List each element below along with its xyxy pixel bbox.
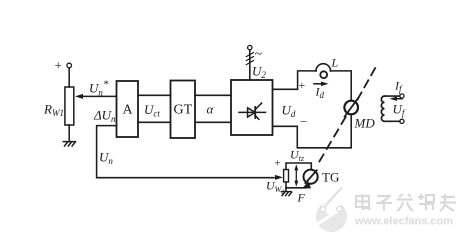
- wire -Ud output bottom: [273, 114, 352, 148]
- wire +Ud output top: [273, 71, 317, 89]
- svg-text:A: A: [123, 103, 134, 118]
- svg-text:Uf: Uf: [393, 102, 406, 119]
- svg-text:L: L: [331, 56, 339, 70]
- svg-text:GT: GT: [174, 103, 193, 118]
- wire: [285, 182, 287, 188]
- node AC supply terminal: [248, 45, 252, 49]
- node Utz voltage arrow: [294, 164, 298, 186]
- wire Uct lower rail: [138, 121, 171, 123]
- ground: [281, 192, 291, 196]
- svg-text:Id: Id: [315, 85, 325, 101]
- wire TG network bottom: [286, 187, 307, 189]
- ground: [63, 142, 75, 146]
- inductor L: [316, 64, 331, 71]
- svg-text:+: +: [275, 158, 281, 170]
- wire TG network top: [286, 163, 311, 170]
- svg-text:Uct: Uct: [144, 102, 160, 119]
- svg-text:UW2: UW2: [266, 179, 284, 196]
- wire alpha lower rail: [195, 121, 231, 123]
- wire field bottom: [385, 120, 400, 122]
- svg-text:Ud: Ud: [282, 103, 296, 120]
- svg-text:RW1: RW1: [43, 102, 64, 119]
- tachogenerator TG: [304, 170, 318, 184]
- svg-text:−: −: [300, 114, 307, 129]
- wire alpha upper rail: [195, 94, 231, 96]
- block GT (trigger unit): [171, 81, 196, 139]
- node field terminal bottom: [400, 119, 404, 123]
- svg-text:Un*: Un*: [89, 79, 109, 98]
- svg-text:~: ~: [255, 47, 263, 62]
- svg-text:+: +: [55, 58, 62, 73]
- wire field top: [385, 95, 400, 97]
- Id current arrow: [314, 83, 324, 85]
- wire to ground: [285, 188, 287, 191]
- motor MD: [344, 101, 358, 115]
- svg-text:F: F: [297, 191, 306, 205]
- thyristor symbol inside: [239, 103, 266, 119]
- svg-text:TG: TG: [322, 170, 339, 185]
- field winding coil: [381, 96, 384, 121]
- resistor RW1 (potentiometer body): [65, 87, 74, 125]
- wire U2 AC input: [249, 50, 251, 80]
- svg-text:ΔUn: ΔUn: [93, 108, 116, 125]
- rectifier block V (thyristor converter): [231, 80, 273, 135]
- shaft coupling dashed line above motor: [358, 68, 376, 100]
- svg-text:Utz: Utz: [290, 148, 305, 164]
- wire Un feedback riser to A: [97, 126, 274, 178]
- If current arrow: [394, 98, 402, 100]
- watermark logo: [316, 185, 350, 232]
- op-amp A (amplifier block): [117, 81, 139, 137]
- wire to motor: [331, 71, 352, 101]
- node + supply terminal top-left: [67, 63, 72, 68]
- svg-text:www.elecfans.com: www.elecfans.com: [354, 216, 453, 228]
- svg-text:MD: MD: [354, 116, 376, 131]
- watermark chinese brand glyphs (hand drawn): [356, 194, 456, 211]
- AC break hatches: [246, 53, 253, 65]
- shaft coupling dashed line motor to TG: [317, 117, 346, 166]
- wire wiper of RW1 to A: [78, 95, 117, 97]
- wire Uct upper rail: [138, 94, 171, 96]
- svg-text:+: +: [299, 78, 306, 92]
- resistor UW (feedback potentiometer): [284, 170, 289, 183]
- node field terminal top: [400, 94, 404, 98]
- svg-text:Un: Un: [99, 150, 113, 167]
- wire: [68, 68, 70, 87]
- svg-text:U2: U2: [252, 64, 266, 81]
- wire: [68, 125, 70, 141]
- svg-text:α: α: [207, 102, 215, 117]
- svg-text:If: If: [394, 79, 403, 95]
